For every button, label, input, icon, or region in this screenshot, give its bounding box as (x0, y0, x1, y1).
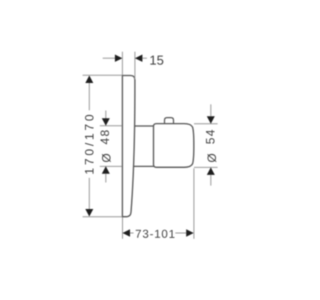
dimension 170/170: bottom extension line (83, 216, 122, 218)
dimension D48: down arrow (102, 118, 110, 126)
dimension 170/170: top arrow (85, 76, 93, 84)
handle sleeve top edge (134, 125, 154, 127)
dimension 15: right extension line (134, 52, 136, 80)
svg-text:Ø: Ø (100, 153, 114, 162)
dimension 170/170: top extension line (83, 74, 122, 76)
svg-text:73-101: 73-101 (135, 229, 176, 241)
dimension 73-101: left line segment (130, 232, 134, 234)
dimension D48: lower stem (105, 174, 107, 183)
dimension D54: bottom extension line (194, 166, 218, 168)
dimension D54: upper stem (210, 104, 212, 116)
dimension 73-101: right line segment (175, 232, 186, 234)
dimension D54: lower stem (210, 175, 212, 186)
dimension 73-101: right extension line (193, 168, 195, 239)
svg-text:Ø: Ø (205, 153, 219, 162)
dimension D54: top extension line (194, 123, 218, 125)
dimension 15: left arrow (115, 55, 123, 62)
svg-text:170/170: 170/170 (82, 112, 96, 175)
dimension 73-101: left arrow (123, 229, 131, 236)
dimension 170/170: stem upper (88, 83, 90, 110)
dimension 73-101: left extension line (122, 218, 124, 239)
escutcheon plate (side view) (122, 76, 135, 217)
dimension 170/170: bottom arrow (85, 209, 93, 217)
handle grip (154, 124, 194, 168)
dimension D54: up arrow (207, 167, 215, 175)
dimension D48: up arrow (102, 166, 110, 174)
svg-text:15: 15 (149, 53, 163, 68)
dimension 15: left extension line (121, 52, 123, 75)
dimension D48: upper stem (105, 111, 107, 119)
dimension 170/170: stem lower (88, 178, 90, 209)
dimension 15: left approach line (103, 57, 116, 59)
handle sleeve bottom edge (133, 165, 153, 167)
svg-text:54: 54 (204, 128, 218, 144)
dimension 73-101: right arrow (186, 229, 194, 236)
dimension 15: right arrow (135, 55, 143, 62)
dimension D54: down arrow (207, 116, 215, 124)
button on grip top (165, 118, 174, 124)
dimension 15: right approach line (142, 57, 147, 59)
svg-text:48: 48 (98, 128, 112, 144)
dimension D48: top extension line (100, 125, 122, 127)
dimension D48: bottom extension line (100, 165, 122, 167)
